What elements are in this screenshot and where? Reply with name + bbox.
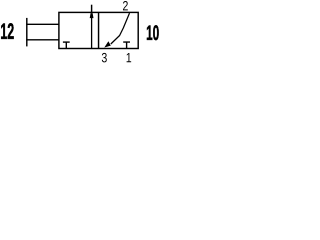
port label 10 [147,25,159,40]
pilot line upper (wire) [26,23,59,25]
port label 1 [127,53,132,62]
pilot actuator vertical bar [26,18,28,47]
valve body box [59,12,138,48]
port label 2 [123,1,128,10]
flow arrow up (left cell, 1 to 2) [90,13,94,48]
port label 3 [102,53,107,63]
cell divider [98,12,100,48]
background [0,0,168,65]
exhaust arrow diagonal (right cell, 2 to 3) [104,13,129,47]
blocked port T (left cell) [63,42,70,48]
blocked port T (right cell) [123,42,130,48]
port label 12 [1,23,14,39]
pilot line lower (wire) [26,39,59,41]
port 2 stub (wire above box) [91,5,93,13]
